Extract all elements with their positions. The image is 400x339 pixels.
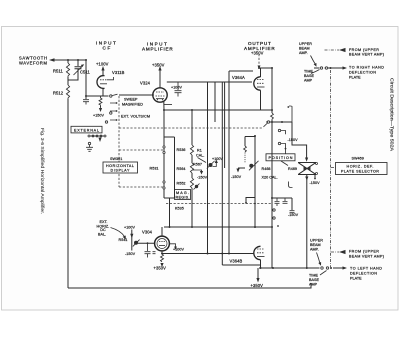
svg-text:DISPLAY: DISPLAY (111, 169, 130, 173)
svg-text:EXT. VOLTS/CM: EXT. VOLTS/CM (121, 115, 150, 119)
svg-text:R567: R567 (193, 163, 202, 167)
svg-text:WAVEFORM: WAVEFORM (19, 61, 47, 66)
svg-text:R511: R511 (53, 69, 64, 74)
svg-text:BASE: BASE (304, 74, 315, 78)
svg-text:BEAM VERT AMP): BEAM VERT AMP) (349, 53, 384, 57)
svg-text:UPPER: UPPER (299, 42, 312, 46)
svg-text:R469: R469 (288, 167, 297, 171)
svg-text:+350V: +350V (251, 51, 264, 56)
svg-text:BEAM: BEAM (310, 243, 321, 247)
svg-text:K535: K535 (175, 207, 184, 211)
svg-text:Circuit Description—Type 502A: Circuit Description—Type 502A (390, 78, 395, 151)
svg-text:+100V: +100V (171, 86, 183, 90)
svg-text:R564: R564 (177, 167, 186, 171)
svg-text:-150V: -150V (288, 138, 299, 142)
svg-text:+100V: +100V (173, 247, 185, 251)
svg-text:R468: R468 (262, 167, 271, 171)
svg-text:FROM (UPPER: FROM (UPPER (349, 48, 379, 52)
svg-text:R512: R512 (53, 91, 64, 96)
svg-text:V324: V324 (140, 81, 151, 86)
svg-text:V304: V304 (142, 230, 153, 235)
svg-text:+350V: +350V (152, 63, 165, 68)
svg-text:POSITION: POSITION (269, 156, 293, 160)
svg-text:PLATE: PLATE (350, 277, 362, 281)
svg-text:+350V: +350V (154, 266, 167, 271)
svg-text:MAG.: MAG. (176, 191, 189, 195)
svg-text:DEFLECTION: DEFLECTION (349, 71, 376, 75)
svg-text:TO RIGHT HAND: TO RIGHT HAND (349, 66, 384, 70)
svg-text:+350V: +350V (251, 283, 264, 288)
svg-text:+100V: +100V (212, 157, 224, 161)
svg-text:PLATE SELECTOR: PLATE SELECTOR (341, 170, 379, 174)
svg-text:X20 CAL.: X20 CAL. (262, 176, 278, 180)
svg-text:R531: R531 (150, 167, 159, 171)
svg-text:R541: R541 (119, 238, 128, 242)
svg-text:AMP.: AMP. (310, 248, 319, 252)
svg-text:BAL.: BAL. (98, 232, 106, 236)
svg-text:UPPER: UPPER (310, 239, 323, 243)
svg-text:SW469: SW469 (352, 157, 364, 161)
svg-text:BEAM: BEAM (299, 47, 310, 51)
svg-text:BASE: BASE (309, 278, 320, 282)
svg-text:+100V: +100V (124, 226, 136, 230)
svg-text:AMP: AMP (304, 79, 313, 83)
svg-text:-150V: -150V (197, 176, 208, 180)
svg-text:V364A: V364A (232, 75, 245, 80)
svg-text:-150V: -150V (125, 252, 136, 256)
svg-text:MAGNIFIED: MAGNIFIED (122, 103, 143, 107)
svg-text:AMPLIFIER: AMPLIFIER (142, 47, 173, 52)
svg-text:HORIZONTAL: HORIZONTAL (106, 164, 134, 168)
svg-text:-150V: -150V (310, 181, 321, 185)
svg-text:AMP.: AMP. (299, 51, 308, 55)
svg-text:V364B: V364B (230, 259, 243, 264)
svg-text:DEFLECTION: DEFLECTION (350, 272, 377, 276)
svg-text:TO LEFT HAND: TO LEFT HAND (350, 267, 382, 271)
svg-text:CAL.: CAL. (196, 154, 204, 158)
svg-text:FROM (UPPER: FROM (UPPER (349, 250, 379, 254)
svg-text:Fig. 3-6 Simplified Horizont: Fig. 3-6 Simplified Horizontal Amplifier… (40, 128, 45, 214)
svg-text:-150V: -150V (288, 213, 299, 217)
svg-text:EXTERNAL: EXTERNAL (74, 128, 99, 132)
svg-text:C511: C511 (80, 70, 91, 75)
svg-text:TIME: TIME (304, 70, 313, 74)
svg-text:+100V: +100V (96, 62, 109, 67)
svg-text:CF: CF (103, 46, 111, 51)
svg-text:HORIZ. DEF.: HORIZ. DEF. (347, 165, 374, 169)
svg-text:+150V: +150V (93, 114, 105, 118)
svg-text:-150V: -150V (231, 175, 242, 179)
svg-text:R1: R1 (197, 149, 202, 153)
svg-text:AMP: AMP (309, 283, 318, 287)
svg-text:R536: R536 (177, 148, 186, 152)
svg-text:SW301: SW301 (110, 157, 122, 161)
svg-text:PLATE: PLATE (349, 76, 361, 80)
svg-text:SWEEP: SWEEP (124, 98, 138, 102)
svg-text:REGIS.: REGIS. (176, 196, 190, 200)
svg-text:V311B: V311B (112, 70, 125, 75)
svg-text:R552: R552 (177, 182, 186, 186)
svg-text:BEAM VERT AMP): BEAM VERT AMP) (349, 255, 384, 259)
svg-text:TIME: TIME (309, 274, 318, 278)
